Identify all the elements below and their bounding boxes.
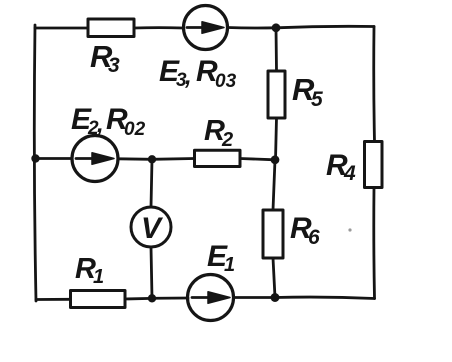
- source E1: [188, 275, 234, 321]
- wire middle-left segment: [35, 157, 72, 160]
- label E1: [207, 240, 235, 276]
- source E3: [184, 6, 228, 50]
- wire E3 to top node: [228, 26, 277, 29]
- wire R2 to middle-right node: [240, 159, 275, 160]
- wire R1 to node: [125, 298, 188, 299]
- wire bottom node to bottom-right corner: [275, 297, 375, 298]
- svg-text:5: 5: [311, 88, 323, 111]
- wire right rail lower: [372, 188, 376, 299]
- svg-text:,: ,: [96, 111, 104, 138]
- node bottom-right: [271, 293, 280, 302]
- resistor R4: [365, 142, 383, 188]
- source E2: [72, 136, 118, 182]
- resistor R1: [71, 291, 126, 308]
- wire R6 to bottom node: [273, 258, 275, 298]
- wire left rail: [34, 25, 36, 301]
- voltmeter V: [131, 207, 171, 247]
- wire V branch upper: [151, 159, 152, 207]
- wire middle node to R6: [273, 160, 275, 210]
- node middle-left rail: [31, 154, 39, 162]
- wire E1 to bottom-right node: [234, 296, 276, 299]
- wire top node to top-right corner: [276, 26, 374, 27]
- resistor R2: [195, 150, 241, 166]
- resistor R3: [88, 19, 134, 37]
- node middle-right: [271, 155, 280, 164]
- label R4: [326, 149, 356, 185]
- svg-text:3: 3: [108, 54, 120, 77]
- svg-text:2: 2: [221, 129, 233, 151]
- label R6: [290, 212, 320, 249]
- svg-text:,: ,: [184, 63, 192, 90]
- label V: [141, 212, 164, 245]
- wire R5 to middle node: [276, 118, 277, 160]
- wire middle vertical top (node to R5): [275, 28, 278, 71]
- wire R3 to E3: [134, 26, 184, 29]
- label R5: [292, 72, 323, 111]
- node bottom (V branch): [148, 294, 156, 302]
- wire V branch lower: [151, 247, 152, 298]
- svg-text:1: 1: [224, 254, 235, 276]
- label R2: [204, 115, 233, 151]
- label E2, R02: [71, 103, 146, 140]
- svg-text:03: 03: [215, 71, 237, 92]
- resistor R5: [268, 71, 285, 118]
- wire bottom-left segment: [36, 298, 71, 301]
- label E3, R03: [159, 55, 237, 92]
- wire node to R2: [152, 157, 195, 161]
- node middle (V branch tap): [148, 155, 156, 163]
- svg-text:1: 1: [93, 266, 104, 288]
- ink speckle: [348, 228, 351, 231]
- wire right rail upper: [372, 27, 376, 142]
- label R1: [75, 253, 104, 288]
- svg-text:V: V: [141, 212, 164, 245]
- wire top left segment: [35, 27, 88, 30]
- svg-text:02: 02: [124, 119, 146, 140]
- wire E2 to node: [118, 157, 152, 160]
- resistor R6: [263, 210, 283, 258]
- label R3: [90, 39, 120, 77]
- svg-text:4: 4: [343, 162, 356, 185]
- node top middle: [272, 23, 281, 32]
- svg-text:6: 6: [308, 226, 320, 249]
